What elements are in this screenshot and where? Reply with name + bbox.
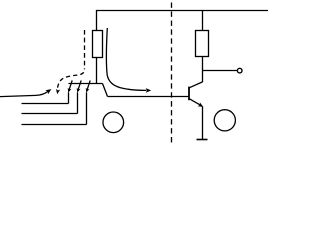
transistor Q1 collector diagonal <box>189 82 202 88</box>
wire emitter vertical <box>202 106 204 139</box>
filament arrow 1 head <box>68 88 72 93</box>
wire return line 4 <box>22 124 87 126</box>
terminal open circle <box>237 68 242 73</box>
resistor R2 <box>196 31 209 57</box>
current flow curve from R1 to base <box>106 28 146 90</box>
resistor R1 <box>93 31 103 58</box>
transistor Q1 emitter arrowhead <box>198 102 204 107</box>
callout circle left <box>103 112 124 133</box>
callout circle right <box>214 110 235 131</box>
wire emitter junction line <box>69 83 103 85</box>
transistor Q1 base bar <box>188 87 190 101</box>
dashed boundary line left <box>84 30 86 69</box>
dashed current arrowhead <box>56 89 60 94</box>
filament arrow 1 diagonal <box>69 80 72 89</box>
base current line 1 arrowhead <box>45 89 51 94</box>
current flow curve arrowhead <box>146 88 152 93</box>
wire collector vertical <box>202 57 204 83</box>
wire top rail <box>97 11 269 31</box>
wire R1 bottom to junction <box>96 58 98 84</box>
filament arrow 3 head <box>86 88 90 93</box>
wire filament 2 vertical <box>77 92 79 113</box>
wire base line <box>108 96 190 98</box>
filament arrow 2 diagonal <box>78 80 81 89</box>
transistor Q1 emitter diagonal <box>189 99 201 106</box>
wire filament 1 vertical <box>68 92 70 103</box>
wire R2 top <box>202 11 204 31</box>
wire return line 3 <box>22 113 78 115</box>
wire filament 3 vertical <box>86 92 88 124</box>
wire base current line 1 <box>0 91 48 97</box>
ground <box>197 139 208 141</box>
wire step diagonal to base line <box>103 84 108 97</box>
wire return line 2 <box>22 103 69 105</box>
filament arrow 3 diagonal <box>87 80 90 89</box>
dashed current arrow curve <box>57 69 84 90</box>
wire output tap <box>203 70 238 72</box>
filament arrow 2 head <box>77 88 81 93</box>
dashed boundary line center <box>171 3 173 143</box>
